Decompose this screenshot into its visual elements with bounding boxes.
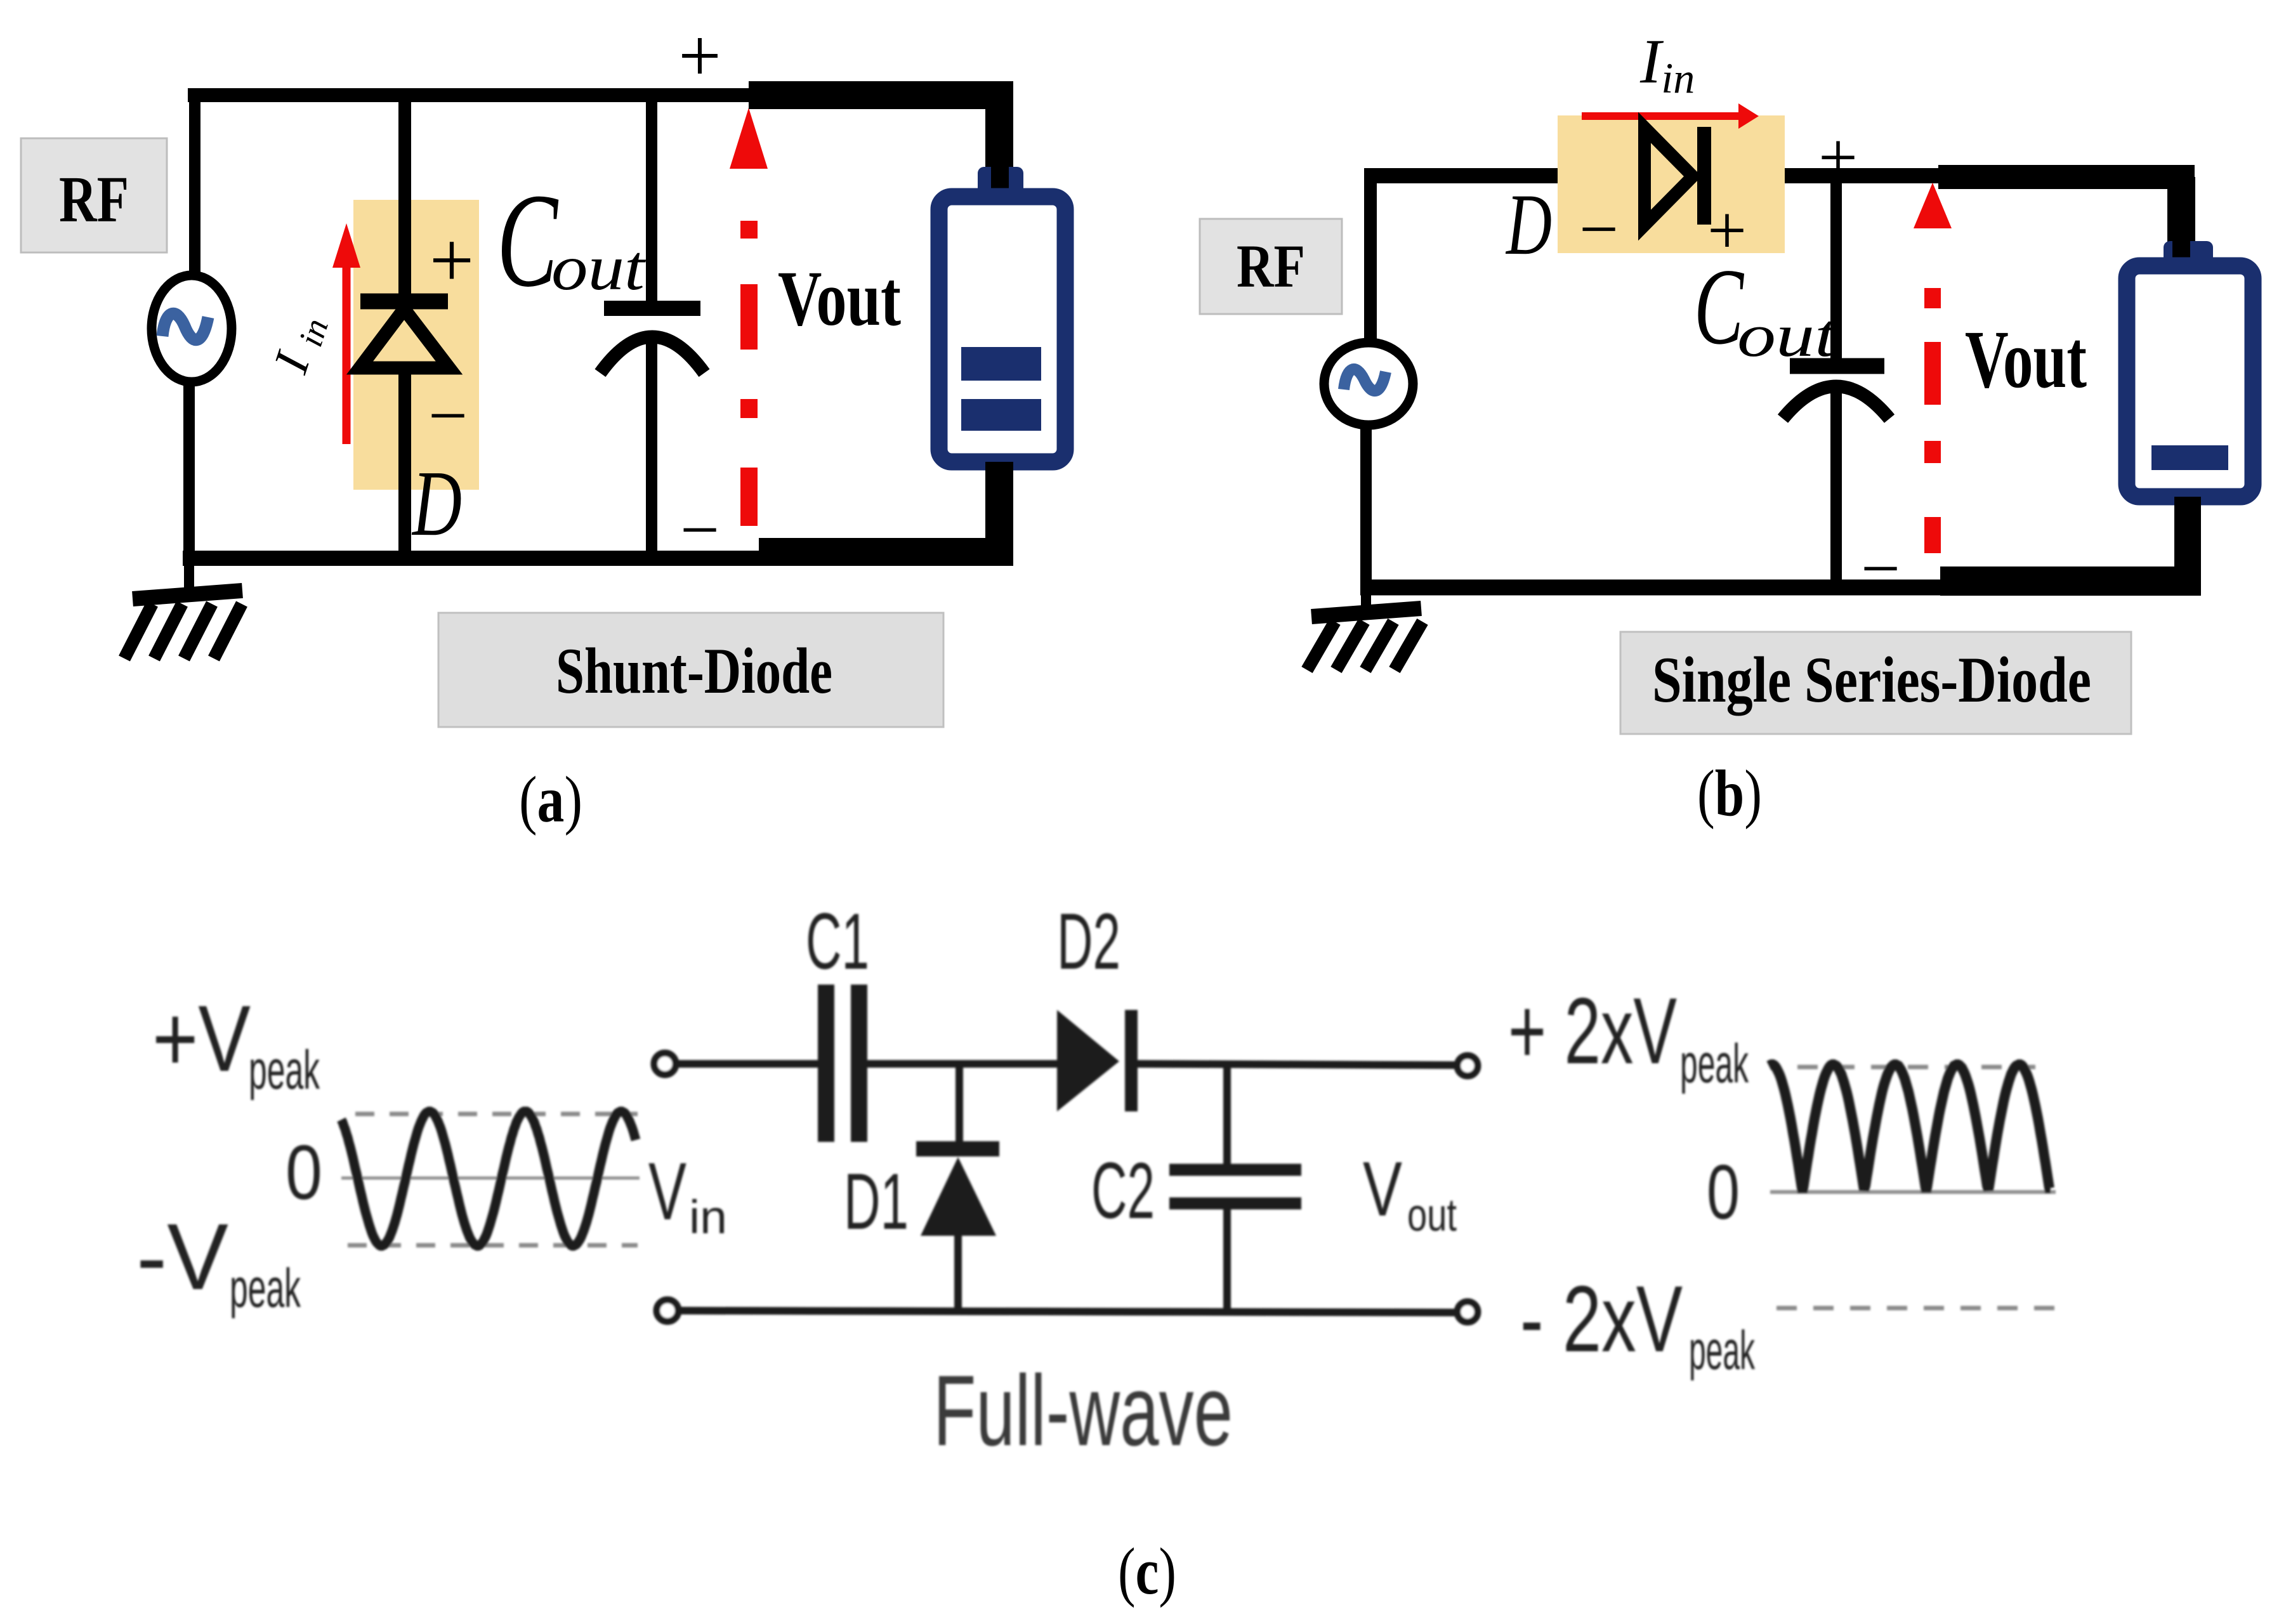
svg-text:+: + [430,217,475,304]
diode D (b) series [1645,127,1704,225]
label (c) [1118,1534,1176,1608]
battery load (b) [2127,241,2253,497]
label - output (a) [680,491,719,568]
svg-text:D: D [412,452,462,556]
output terminal top (c) [1457,1056,1478,1076]
input terminal bottom (c) [657,1300,678,1321]
label Cout (a) [497,166,647,315]
input terminal top (c) [654,1053,676,1075]
capacitor C2 (c) [1169,1068,1301,1312]
label Vout (b) [1965,314,2087,405]
wire (a) top rail [188,88,752,102]
yellow highlight around diode (b) [1558,115,1785,253]
svg-text:Full-wave: Full-wave [933,1355,1233,1467]
svg-text:Single Series-Diode: Single Series-Diode [1652,644,2091,716]
capacitor C1 (c) [826,985,859,1142]
svg-text:+V: +V [152,986,251,1091]
output rectified waveform (c) [1769,1064,2051,1192]
svg-text:(b): (b) [1697,757,1762,830]
input zero axis line (c) [341,1177,640,1180]
label Iin (a) [262,308,336,381]
svg-text:peak: peak [249,1040,320,1101]
label + cathode of D (b) [1707,192,1747,269]
label (a) [519,763,582,836]
svg-text:(a): (a) [519,763,582,836]
label -Vpeak (c) [136,1205,301,1319]
red dash-dot Vout measurement line (a) [730,108,768,526]
wire (b) left vertical [1366,169,1370,590]
svg-text:−: − [680,491,719,568]
wire (c) top rail [678,1064,1457,1065]
wire (b) bottom rail [1360,580,1943,596]
svg-text:Shunt-Diode: Shunt-Diode [556,635,832,707]
output zero axis line (c) [1770,1190,2056,1194]
wire (c) bottom rail [680,1311,1457,1313]
RF source label box (b) [1200,219,1342,314]
svg-text:C: C [497,166,559,315]
svg-text:RF: RF [1237,232,1305,300]
svg-text:C1: C1 [806,898,869,986]
label + cathode of D (a) [430,217,475,304]
AC source V1 (b) [1324,343,1413,425]
input -Vpeak dashed envelope (c) [348,1243,638,1248]
svg-text:in: in [689,1191,727,1243]
svg-text:Vout: Vout [1965,314,2087,405]
svg-text:V: V [1363,1146,1402,1232]
yellow highlight around diode (a) [353,200,479,490]
label -2xVpeak (c) [1520,1267,1756,1381]
label Cout (b) [1694,247,1838,369]
output terminal bottom (c) [1457,1302,1478,1322]
diode D2 (c) [1057,1010,1131,1111]
output +2xVpeak dashed envelope (c) [1797,1065,2035,1070]
svg-text:D: D [1506,176,1552,273]
svg-text:peak: peak [230,1258,301,1319]
label (b) [1697,757,1762,830]
label - output (b) [1861,530,1900,607]
Single Series-Diode caption box (b) [1620,632,2131,734]
svg-text:V: V [648,1146,686,1237]
ground (b) [1307,587,1422,670]
label Iin (b) [1639,26,1695,102]
label + output node (a) [678,13,721,98]
svg-text:−: − [1861,530,1900,607]
label C2 (c) [1091,1147,1155,1235]
label D1 (c) [844,1158,909,1246]
label D2 (c) [1057,898,1120,986]
svg-text:peak: peak [1680,1033,1749,1094]
svg-text:0: 0 [1707,1149,1740,1235]
input sine waveform (c) [341,1111,636,1246]
wire (b) top rail [1364,168,1943,183]
svg-text:+ 2xV: + 2xV [1508,979,1677,1084]
thick wire (b) load bottom [1940,497,2201,581]
label Vout (c) [1363,1146,1457,1241]
ground (a) [124,558,242,658]
input +Vpeak dashed envelope (c) [355,1112,638,1116]
svg-text:−: − [1579,190,1619,268]
output -2xVpeak dashed envelope (c) [1777,1306,2054,1311]
wire (a) left vertical [189,88,195,561]
capacitor Cout (a) [600,95,704,558]
thick wire (b) load top [1938,177,2195,254]
svg-text:peak: peak [1689,1320,1756,1381]
svg-text:0: 0 [286,1129,322,1215]
svg-text:+: + [678,13,721,98]
diode D1 (c) [916,1068,999,1311]
red dash-dot Vout measurement line (b) [1914,183,1952,553]
AC source V1 (a) [152,275,232,382]
svg-text:out: out [1407,1190,1457,1241]
svg-text:D1: D1 [844,1158,909,1246]
label + output node (b) [1818,119,1858,196]
red current arrow Iin (b) [1582,103,1759,129]
label 0 input axis (c) [286,1129,322,1215]
label D (a) [412,452,462,556]
battery load (a) [939,167,1065,462]
capacitor Cout (b) [1783,183,1889,587]
svg-text:RF: RF [59,163,129,236]
label 0 output axis (c) [1707,1149,1740,1235]
label Vout (a) [778,255,901,342]
svg-text:- 2xV: - 2xV [1520,1267,1683,1372]
diode D (a) shunt [360,95,449,558]
label +Vpeak (c) [152,986,320,1101]
svg-text:-V: -V [136,1205,228,1309]
label Full-wave (c) [933,1355,1233,1467]
RF source label box (a) [21,138,167,252]
label Vin (c) [648,1146,727,1243]
red current arrow Iin (a) [332,223,360,444]
wire (a) bottom rail [183,551,759,566]
svg-text:C2: C2 [1091,1147,1155,1235]
svg-text:out: out [551,232,647,304]
svg-text:−: − [428,377,468,454]
label +2xVpeak (c) [1508,979,1749,1094]
label D (b) [1506,176,1552,273]
svg-text:D2: D2 [1057,898,1120,986]
label - anode of D (b) [1579,190,1619,268]
label - anode of D (a) [428,377,468,454]
label C1 (c) [806,898,869,986]
Shunt-Diode caption box (a) [438,613,943,727]
thick wire (a) load bottom [759,462,1013,552]
thick wire (a) load top [749,95,1013,178]
svg-text:(c): (c) [1118,1534,1176,1608]
svg-text:Vout: Vout [778,255,901,342]
